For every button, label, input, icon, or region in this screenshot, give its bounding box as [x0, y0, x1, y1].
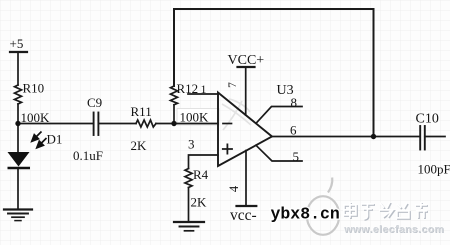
resistor R4	[185, 169, 192, 188]
ground	[4, 208, 32, 210]
svg-text:3: 3	[188, 137, 195, 152]
power VCC+ bar	[238, 66, 255, 68]
svg-text:5: 5	[293, 149, 300, 164]
wire R11 to opamp minus input	[156, 123, 218, 125]
watermark ybx8 circle logo	[307, 178, 339, 235]
wire feedback down to output	[373, 9, 375, 137]
svg-text:100K: 100K	[21, 110, 51, 125]
op-amp U3	[218, 93, 272, 167]
svg-text:www.elecfans.com: www.elecfans.com	[343, 224, 444, 236]
diode D1 cathode bar	[8, 167, 31, 169]
wire opamp plus input to R4	[189, 155, 219, 169]
wire +5 stem to R10	[17, 52, 19, 85]
wire feedback top	[174, 8, 374, 10]
ground	[174, 221, 204, 223]
watermark elecfans CJK glyphs (pseudo strokes)	[345, 203, 428, 220]
junction node output	[371, 134, 376, 139]
capacitor C10	[419, 126, 421, 150]
svg-text:vcc-: vcc-	[230, 207, 257, 224]
junction node left	[15, 121, 20, 126]
svg-text:8: 8	[291, 95, 298, 110]
svg-text:2K: 2K	[131, 138, 148, 153]
svg-text:R11: R11	[131, 104, 152, 119]
wire VCC+ stem pin 7	[245, 67, 247, 115]
junction node R12/R11	[171, 121, 176, 126]
opamp plus sign	[223, 144, 232, 153]
wire C10 right	[425, 136, 445, 138]
wire vcc- stem pin 4	[245, 151, 247, 207]
svg-text:6: 6	[290, 123, 297, 138]
resistor R11	[136, 120, 156, 127]
svg-text:R4: R4	[193, 167, 209, 182]
capacitor C9	[93, 113, 95, 136]
pin 1 stub	[188, 93, 218, 95]
wire D1 to ground	[17, 168, 19, 209]
resistor R10	[15, 85, 22, 104]
pin 8 stub	[256, 107, 302, 124]
svg-text:4: 4	[227, 185, 241, 192]
opamp minus sign	[223, 123, 232, 125]
svg-text:C9: C9	[87, 95, 102, 110]
svg-text:VCC+: VCC+	[228, 53, 265, 68]
wire output pin 6	[272, 136, 420, 138]
diode D1	[8, 152, 30, 167]
svg-text:R12: R12	[177, 81, 199, 96]
wire C9 to R11	[98, 123, 136, 125]
svg-text:100K: 100K	[180, 110, 210, 125]
wire R4 to ground	[188, 188, 190, 222]
wire node to C9	[18, 123, 94, 125]
wire R10 to node	[17, 104, 19, 124]
svg-text:C10: C10	[416, 112, 439, 127]
svg-text:R10: R10	[23, 81, 45, 96]
svg-text:0.1uF: 0.1uF	[73, 148, 103, 163]
watermark squiggle inside opamp	[222, 99, 251, 130]
wire node to D1	[17, 124, 19, 153]
svg-text:1: 1	[201, 82, 207, 96]
pin 5 stub	[256, 145, 302, 161]
svg-text:+5: +5	[10, 36, 24, 51]
resistor R12	[171, 86, 178, 105]
photodiode arrow 2	[37, 138, 47, 148]
wire R12 bottom to node	[173, 105, 175, 124]
svg-text:7: 7	[227, 82, 239, 88]
wire R12 top to feedback	[173, 9, 175, 86]
watermark white box behind 100K	[177, 109, 219, 126]
svg-text:2K: 2K	[191, 195, 208, 210]
svg-text:ybx8.cn: ybx8.cn	[271, 205, 340, 224]
power vcc- bar	[237, 205, 257, 207]
svg-text:100pF: 100pF	[418, 162, 450, 177]
svg-text:D1: D1	[47, 132, 63, 147]
power +5 bar	[10, 51, 27, 53]
photodiode arrow 1	[32, 132, 42, 142]
